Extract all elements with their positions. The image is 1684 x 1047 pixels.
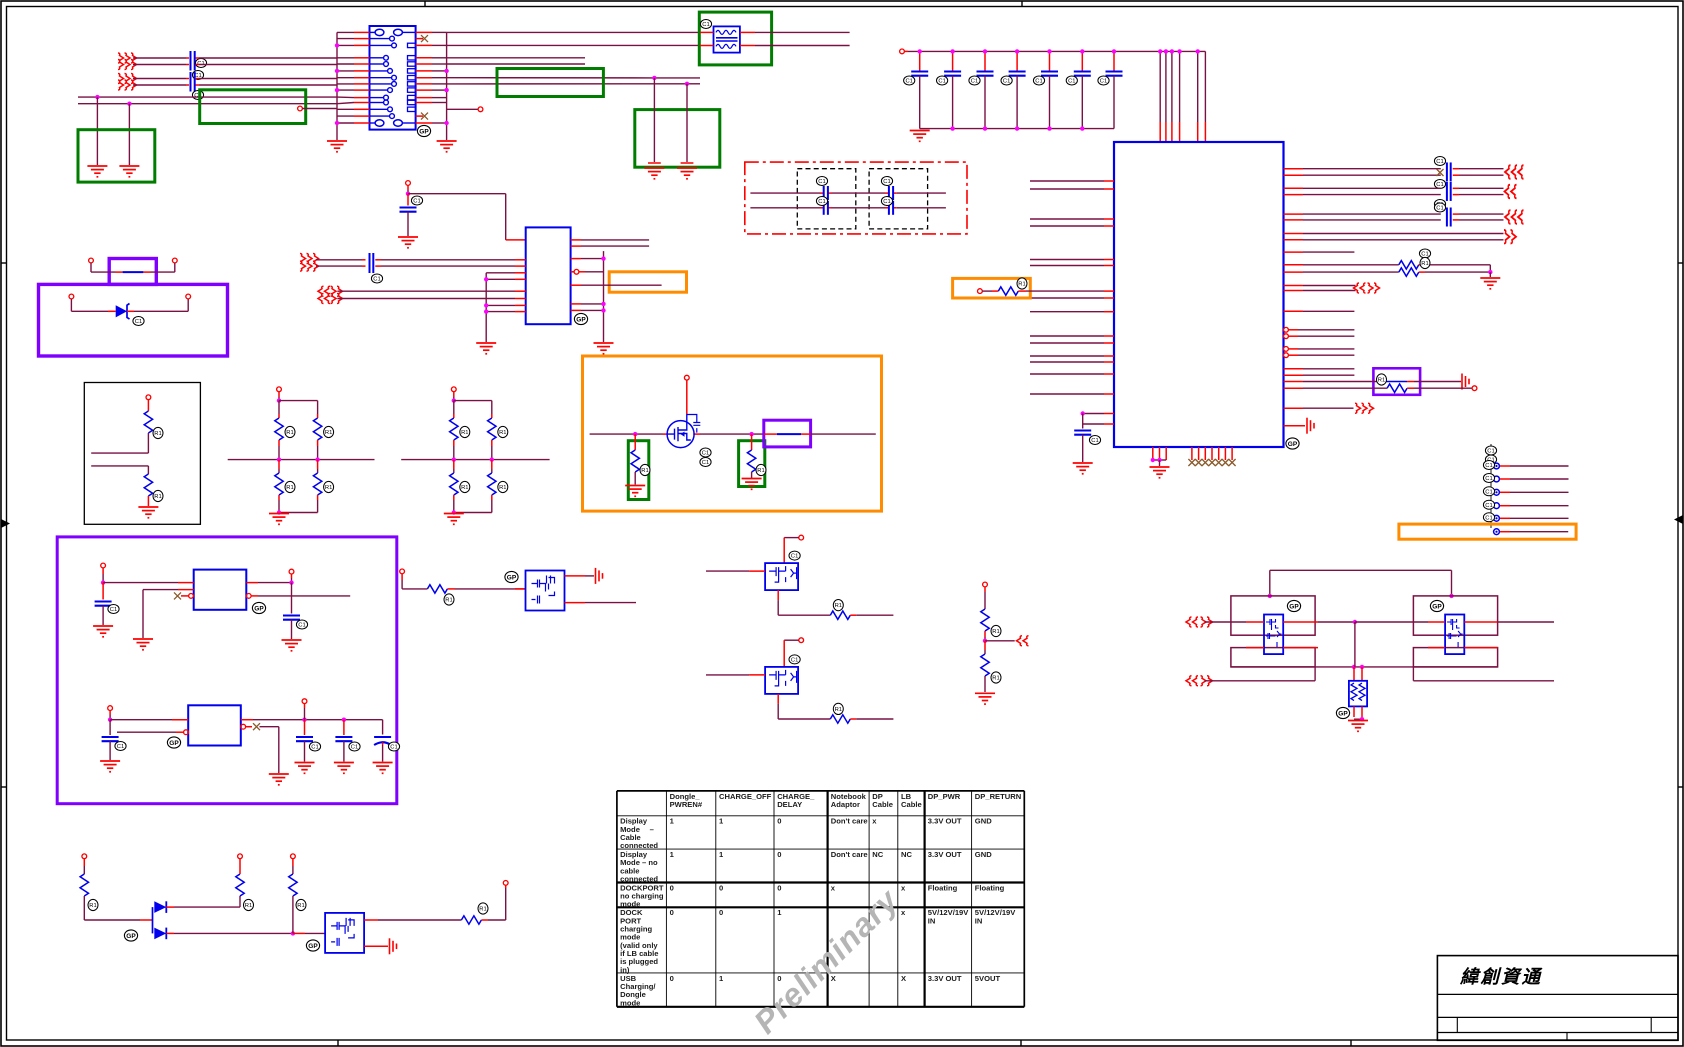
ground (U4 in cap) [100, 761, 120, 772]
junctions power feed [1158, 49, 1200, 53]
junctions left bus [335, 43, 339, 125]
purple group box small (top) [109, 259, 156, 285]
pullup R_c [289, 854, 306, 934]
U1 bottom ground stubs [1151, 447, 1167, 466]
load switch out-top to chassis gnd [565, 575, 595, 577]
capacitor optA line2 [816, 197, 828, 215]
capacitor optB line2 [881, 197, 893, 215]
decoupling capacitor C4 [1001, 51, 1026, 128]
decoupling capacitor C2 [937, 51, 962, 128]
switch module R frame [1413, 596, 1497, 667]
mode table [617, 791, 1024, 1007]
svg-text:Don't care: Don't care [831, 850, 868, 859]
svg-text:Dongle_PWREN#: Dongle_PWREN# [670, 792, 703, 809]
mosfet Q5 box [306, 913, 364, 953]
U1 pin wires y330-336 with pin circles [1284, 327, 1355, 338]
config pin column refdes stack [1485, 444, 1496, 528]
svg-text:3.3V OUT: 3.3V OUT [928, 850, 962, 859]
resistor Rpd1 [631, 434, 650, 484]
svg-text:0: 0 [670, 883, 674, 892]
black group box jumper [84, 383, 200, 525]
regulator U3 body [194, 570, 247, 610]
U2 bidir pair wires [337, 291, 525, 298]
svg-text:DP_RETURN: DP_RETURN [975, 792, 1021, 801]
resistor Rj2 [91, 466, 163, 506]
ground (resistor pair) [1480, 278, 1500, 289]
junction on net1 [95, 95, 99, 99]
off-page flags module L in2 [1186, 676, 1213, 686]
svg-text:Floating: Floating [975, 883, 1005, 892]
off-page flag pair1 [1505, 165, 1524, 179]
green group box termination caps [635, 110, 720, 168]
decoupling capacitor C3 [969, 51, 994, 128]
off-page connector flags (top-left pair 1) [118, 53, 137, 70]
capacitor C_u4 out1 [296, 720, 321, 762]
mosfet unit Q2 [706, 535, 893, 619]
capacitor optA line1 [816, 177, 828, 201]
ground (term 2) [677, 168, 697, 179]
U1 pin wire y311 [1284, 310, 1355, 312]
config pin row 4 [1483, 500, 1568, 509]
wires connector to transformer nets [447, 32, 700, 84]
power switch main rail wire [590, 433, 764, 435]
wire drop to gnd 1 [96, 97, 98, 165]
bus wire net1 y=97 [78, 96, 337, 98]
capacitor C_u4 in [102, 720, 127, 760]
off-page flag divider mid [1017, 636, 1029, 646]
U4 enable net [117, 730, 188, 735]
strap resistor R [1284, 374, 1477, 393]
pullup R_a [80, 854, 98, 920]
U1 pin wire y408 off-page [1284, 407, 1354, 409]
off-page flag y408 [1355, 403, 1374, 413]
ground (shield cap 2) [119, 166, 139, 177]
U1 pin wire y252 [1284, 251, 1355, 253]
module L in2 wire [1205, 667, 1316, 681]
wires through transformer [700, 32, 850, 45]
resistor pair to gnd [1284, 257, 1493, 277]
no-connect x (connector pin 2) [416, 35, 428, 42]
regulator U4 body [188, 705, 241, 745]
config pin in orange box [1494, 529, 1569, 535]
ground (C_u4 out2) [334, 763, 354, 774]
svg-text:CHARGE_OFF: CHARGE_OFF [719, 792, 772, 801]
regulator U3 refdes [252, 602, 265, 613]
U2 right out pair wires [571, 240, 650, 246]
U1 pin wires y369-375 [1284, 369, 1355, 375]
svg-text:0: 0 [670, 974, 674, 983]
ground (C_u4 out3) [373, 763, 393, 774]
junction switch left [633, 432, 637, 436]
ground (divider B) [444, 514, 464, 525]
IC U2 body [526, 227, 571, 324]
U1 bottom-left bypass pair [1081, 411, 1115, 424]
capacitor C_u2 feed [400, 194, 423, 236]
svg-text:GND: GND [975, 850, 992, 859]
svg-text:5VOUT: 5VOUT [975, 974, 1001, 983]
bead out wire [764, 433, 876, 435]
svg-text:0: 0 [719, 883, 723, 892]
load switch Q4 box [505, 571, 565, 611]
wire pair2 caps to connector bus [196, 79, 338, 86]
svg-text:NC: NC [872, 850, 883, 859]
decoupling capacitor C7 [1098, 51, 1123, 128]
chassis ground (load switch) [596, 568, 603, 584]
svg-text:GND: GND [975, 817, 992, 826]
no-connect x (connector pin 13) [416, 113, 428, 120]
load switch out-bottom wire [565, 602, 637, 604]
U3 enable net [143, 590, 194, 638]
U1 pin wires y349-355 with pin circles [1284, 347, 1355, 358]
U1 diff pair 1 with AC caps [1284, 157, 1504, 189]
switch module R mosfet [1428, 600, 1498, 654]
diode out net [166, 931, 325, 935]
decoupling capacitor C1 [904, 51, 929, 128]
bus wire net2 y=104 [78, 103, 337, 105]
ferrite bead net pins [89, 258, 178, 263]
main IC U1 power feed wires [1160, 51, 1205, 142]
capacitor C_pair2 (series coupling) [191, 72, 204, 100]
ground (pulldown2) [742, 479, 762, 490]
ground (U4 nc) [269, 774, 289, 785]
U2 right bus [571, 251, 606, 342]
connector J1 refdes [417, 125, 430, 136]
module R in2 wire [1413, 667, 1554, 681]
divider center-right [981, 582, 1015, 692]
left edge fold arrow [1, 519, 10, 528]
ground (jumper) [138, 507, 158, 518]
green group box pulldown 2 [739, 441, 765, 487]
capacitor C_pair1 (series coupling) [191, 51, 207, 80]
ground (U3 in cap) [93, 626, 113, 637]
ground (U3 enable) [133, 639, 153, 650]
module L in1 wire [1205, 621, 1247, 623]
black dashed box option A [797, 169, 856, 229]
strap net wire 1 [1284, 381, 1462, 383]
red dashed group box (optional AC caps) [745, 162, 967, 234]
config pin row 5 [1483, 513, 1568, 522]
switch module L frame [1231, 596, 1315, 667]
ground (U1 bottom) [1150, 467, 1170, 478]
green group box shield caps [78, 130, 155, 182]
ground (divider center-right) [975, 693, 995, 704]
main IC U1 body [1114, 142, 1284, 447]
preliminary watermark [747, 881, 906, 1040]
junction module L top [1268, 594, 1272, 598]
switch module L mosfet [1246, 600, 1318, 654]
config pin row 1 [1483, 461, 1568, 470]
off-page flags U2 input pair [300, 254, 319, 272]
U1 left pin wires [1030, 181, 1114, 394]
U4 nc out pin [241, 723, 279, 773]
ferrite bead wires [91, 263, 175, 272]
bidir off-page flags U2 [318, 286, 343, 303]
U4 output net [241, 699, 383, 722]
orange group box power switch [583, 356, 882, 511]
net stub with pin in EMI box [298, 106, 337, 111]
off-page connector flags (top-left pair 2) [118, 74, 137, 91]
svg-text:3.3V OUT: 3.3V OUT [928, 817, 962, 826]
ground (U2 right bus) [594, 343, 614, 354]
wire pair1 caps to connector bus [196, 58, 338, 65]
black dashed box option B [869, 169, 928, 229]
U1 bottom no-connect stubs [1188, 447, 1235, 466]
junctions right bus [444, 69, 448, 126]
svg-text:NC: NC [901, 850, 912, 859]
ground (U2 left bus) [476, 343, 496, 354]
ground (U3 out cap) [282, 640, 302, 651]
connector J1 body [370, 26, 416, 130]
chassis ground (Q5) [390, 938, 397, 954]
junction net pair2 drop2 [685, 82, 689, 86]
diode pair D2 (common) [84, 901, 166, 941]
junction module R top [1449, 594, 1453, 598]
ground (termination) [1348, 721, 1368, 732]
junction decoupling C7 top [1112, 49, 1116, 53]
U3 output net [246, 569, 294, 585]
decoupling capacitor C6 [1066, 51, 1091, 128]
module L to center wire [1318, 620, 1357, 624]
junction decoupling C2 top [950, 49, 954, 53]
green group box EMI net [200, 90, 306, 124]
U2 input pair wires + AC caps [316, 253, 526, 283]
ground (pulldown1) [625, 486, 645, 497]
Q5 out wire [364, 881, 508, 925]
U2 left bus wires [484, 273, 526, 342]
capacitor C_u1 bypass [1074, 414, 1100, 463]
wire drop to gnd 2 [128, 104, 130, 165]
ground (C_u4 out1) [295, 763, 315, 774]
U1 chassis gnd pin [1284, 425, 1306, 427]
orange group box config net [1399, 524, 1576, 539]
svg-text:X: X [901, 974, 906, 983]
pmos Q1 (circled) [667, 375, 711, 466]
ground (term 1) [644, 168, 664, 179]
wire drop4 [681, 84, 694, 163]
resistor divider group B [401, 387, 549, 515]
center to module R wire [1355, 621, 1428, 623]
capacitor optB line1 [881, 177, 893, 201]
chassis ground (U1) [1307, 418, 1314, 434]
config pin row 3 [1483, 487, 1568, 496]
junction on net2 [127, 102, 131, 106]
wire pin9 to pin stub [447, 107, 483, 112]
off-page flags module L in1 [1186, 617, 1213, 627]
U1 diff pair 2 with AC caps [1284, 182, 1504, 209]
wires option nets [750, 193, 946, 208]
zener diode D1 [71, 299, 188, 326]
svg-text:0: 0 [719, 908, 723, 917]
capacitor C_u4 out2 [335, 720, 360, 762]
bidir off-page flags [1354, 283, 1380, 293]
svg-text:Floating: Floating [928, 883, 958, 892]
U1 diff pair 3 with AC caps [1284, 203, 1504, 227]
resistor R_sense [978, 278, 1115, 295]
U3 nc pin [174, 592, 193, 599]
termination resistor pack [1336, 667, 1367, 722]
ground (connector left) [327, 141, 347, 152]
power pin (U2 feed) [406, 181, 411, 186]
U4 input net [108, 706, 189, 722]
junction decoupling C5 top [1047, 49, 1051, 53]
svg-text:DP_PWR: DP_PWR [928, 792, 961, 801]
junction decoupling C3 top [983, 49, 987, 53]
resistor Rpd2 [747, 434, 766, 478]
Q5 chassis gnd [364, 945, 388, 947]
svg-text:0: 0 [777, 817, 781, 826]
center bus drop [1354, 622, 1356, 667]
orange group box U2 out [609, 272, 686, 292]
capacitor C_u3 in [95, 583, 120, 625]
ground (divider A) [269, 514, 289, 525]
main IC U1 refdes [1286, 438, 1299, 449]
bottom link wire [1231, 665, 1498, 669]
right edge fold arrow [1674, 515, 1683, 524]
purple group box regulators [57, 537, 397, 804]
U1 bidir pair wires [1284, 286, 1356, 291]
resistor Rj1 [91, 400, 163, 453]
ground (shield cap 1) [87, 166, 107, 177]
decoupling capacitor C5 [1033, 51, 1058, 128]
purple group box bead out [764, 420, 811, 447]
svg-text:3.3V OUT: 3.3V OUT [928, 974, 962, 983]
junction decoupling C4 top [1015, 49, 1019, 53]
wire pair2 into coupling caps [133, 79, 189, 86]
junction decoupling C6 top [1080, 49, 1084, 53]
regulator U4 refdes [167, 737, 180, 748]
ground (decoupling bank) [910, 131, 930, 142]
svg-text:緯創資通: 緯創資通 [1459, 967, 1544, 988]
U3 sense net [246, 594, 350, 599]
load switch Q4 input [400, 569, 526, 605]
title block [1437, 956, 1678, 1041]
junction switch right [749, 432, 753, 436]
power net pin [900, 49, 905, 54]
junctions decoupling bottom [950, 126, 1084, 130]
connector right bus wires [416, 32, 447, 140]
transformer T1 [700, 20, 740, 53]
ground (U1 bypass) [1073, 463, 1093, 474]
U2 out net wire into orange box [571, 284, 662, 286]
capacitor C_u4 out3 (polarized) [374, 720, 400, 762]
wire drop3 [648, 78, 661, 163]
orange group box current-sense R [953, 278, 1031, 298]
junction net pair2 drop1 [652, 76, 656, 80]
off-page flag pair2 [1505, 185, 1517, 199]
zener diode net pins [69, 294, 191, 299]
module R out wire [1498, 621, 1554, 623]
chassis ground (strap) [1462, 374, 1469, 390]
decoupling bus top wire [904, 50, 1205, 52]
green group box common-mode choke [699, 12, 771, 65]
green group box LAN terms [497, 69, 603, 97]
connector left bus wires [337, 32, 370, 140]
svg-text:0: 0 [777, 883, 781, 892]
ground (connector right) [437, 141, 457, 152]
config pin row 2 [1483, 474, 1568, 483]
jumper pin [146, 395, 151, 400]
wire pair1 into coupling caps [133, 58, 189, 65]
ground (U2 feed cap) [398, 237, 418, 248]
svg-text:0: 0 [670, 908, 674, 917]
top feed wire between modules [1270, 570, 1452, 596]
svg-text:Don't care: Don't care [831, 817, 868, 826]
purple group box strap R [1373, 368, 1420, 395]
wire U2 feed [406, 185, 526, 240]
off-page flag pair3 [1505, 210, 1524, 224]
off-page flag pair4 [1504, 230, 1516, 244]
IC U2 refdes [574, 313, 587, 324]
junction decoupling C1 top [918, 49, 922, 53]
pullup R_b [166, 854, 253, 911]
mosfet unit Q3 [706, 638, 893, 723]
U1 diff pair 4 (direct) [1284, 234, 1504, 259]
green group box pulldown 1 [628, 441, 649, 500]
purple group box big (ESD) [39, 284, 228, 356]
U3 input net [101, 563, 194, 585]
svg-text:0: 0 [777, 850, 781, 859]
capacitor C_u3 out [283, 583, 308, 639]
decoupling bus bottom wire [920, 128, 1114, 130]
resistor divider group A [228, 387, 375, 515]
